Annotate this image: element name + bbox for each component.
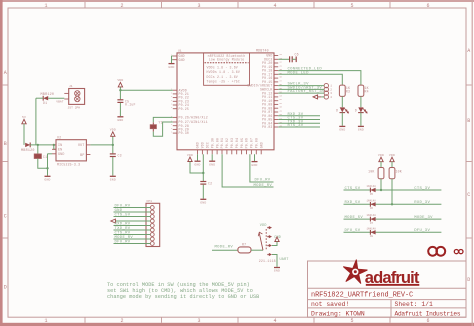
svg-text:C3: C3	[118, 154, 122, 158]
power VDD arrow OUT	[110, 128, 116, 145]
ground LED	[339, 126, 345, 131]
node MODE_RV label SW1	[215, 246, 234, 250]
wire net CTS_5V FP1	[114, 216, 151, 218]
node DFU_RV label	[255, 179, 271, 183]
connector J1 JST 2PH	[64, 85, 84, 109]
node TXD_RV label	[115, 227, 131, 231]
svg-text:MODE_LED: MODE_LED	[288, 71, 310, 75]
wire net RXD_5V/RXD_3V	[344, 203, 442, 205]
logo adafruit star	[344, 260, 368, 283]
svg-text:GND: GND	[358, 128, 364, 132]
svg-text:RTS_3V: RTS_3V	[288, 124, 304, 128]
switch SW1	[258, 224, 288, 263]
svg-text:nRF51822_UARTfriend_REV-C: nRF51822_UARTfriend_REV-C	[311, 292, 413, 300]
wire net MODE_RV FP1	[114, 238, 151, 240]
svg-text:Temps -25 - +75C: Temps -25 - +75C	[207, 80, 241, 84]
svg-text:CTS_RV: CTS_RV	[115, 232, 131, 236]
LED D3	[336, 107, 348, 113]
ground DEC2 cap	[292, 57, 296, 63]
capacitor C6 DEC2	[290, 53, 299, 63]
resistor R3 1K	[339, 85, 350, 96]
wire net FACTORY_RST_3V	[278, 92, 324, 94]
wire net RTS_3V	[278, 126, 320, 128]
svg-text:2: 2	[120, 318, 123, 324]
node CTS_RV label	[115, 232, 131, 236]
wire net TXD_RV FP1	[114, 229, 151, 231]
svg-text:JST 2PH: JST 2PH	[68, 107, 81, 110]
svg-text:RXD_3V: RXD_3V	[414, 201, 430, 205]
wire net SWCLK_3V	[278, 85, 324, 87]
wire net RXD_RV FP1	[114, 225, 151, 227]
node SWCLK_3V label	[288, 83, 310, 87]
svg-text:P0.04: P0.04	[235, 138, 239, 148]
svg-text:BP: BP	[80, 153, 84, 157]
svg-text:HVDDs 1.8 - 3.6V: HVDDs 1.8 - 3.6V	[207, 70, 241, 74]
svg-text:P0.25: P0.25	[179, 107, 189, 111]
svg-text:GND: GND	[194, 162, 200, 166]
svg-text:D5: D5	[370, 193, 374, 196]
svg-text:GND: GND	[200, 201, 206, 205]
ground AVDD cap	[117, 103, 123, 122]
svg-text:Sheet: 1/1: Sheet: 1/1	[395, 301, 434, 308]
svg-text:VDD: VDD	[201, 142, 205, 148]
wire AVDD	[120, 89, 172, 91]
svg-text:VDD: VDD	[187, 153, 193, 157]
svg-text:MODE_RV: MODE_RV	[215, 246, 234, 250]
wire R5 to CTS line	[380, 179, 382, 191]
node DFU_3V label	[414, 229, 430, 233]
node gnd rail junction	[46, 167, 48, 169]
svg-text:C: C	[467, 192, 470, 198]
wire R7 to SW1	[251, 249, 263, 251]
svg-text:D: D	[355, 109, 357, 113]
svg-text:P0.26/AIN0/XL2: P0.26/AIN0/XL2	[179, 116, 208, 120]
frame column numbers	[44, 3, 429, 324]
svg-text:1N4148: 1N4148	[367, 199, 377, 202]
svg-text:GND: GND	[44, 178, 50, 182]
svg-text:VDD: VDD	[378, 153, 384, 157]
power VDD arrow R5	[378, 153, 384, 168]
svg-text:GND: GND	[196, 142, 200, 148]
svg-text:VDD: VDD	[117, 78, 123, 82]
svg-text:DFU_5V: DFU_5V	[345, 229, 361, 233]
title block frame	[308, 261, 467, 317]
svg-text:VDD: VDD	[110, 128, 116, 132]
svg-text:P0.00: P0.00	[215, 138, 219, 148]
svg-text:GND: GND	[168, 65, 174, 69]
svg-text:3: 3	[197, 318, 200, 324]
svg-text:D: D	[4, 285, 7, 291]
svg-text:R4: R4	[365, 89, 369, 93]
capacitor C5	[117, 90, 135, 106]
svg-text:GND: GND	[115, 209, 123, 213]
svg-text:TXD_RV: TXD_RV	[115, 227, 131, 231]
note text block	[107, 282, 259, 300]
wire XL1	[153, 122, 173, 136]
power VDD arrow AVDD	[117, 78, 123, 90]
wire XL2	[153, 117, 173, 122]
svg-text:GND: GND	[179, 58, 185, 62]
svg-text:DFU_RV: DFU_RV	[255, 179, 271, 183]
svg-text:221-1118: 221-1118	[259, 259, 276, 263]
frame row letters	[4, 48, 471, 291]
module U1 bottom pins	[196, 138, 264, 154]
svg-text:VDD: VDD	[260, 224, 267, 228]
svg-text:2: 2	[330, 89, 332, 92]
node SWDIO/nRST_3V label	[288, 86, 323, 91]
wire net SWDIO/nRST_3V	[278, 88, 324, 90]
svg-text:P0.05: P0.05	[240, 138, 244, 148]
module U1 MDBT40 nRF51822 box	[177, 49, 274, 150]
svg-text:GND: GND	[209, 162, 215, 166]
capacitor C3	[110, 145, 122, 158]
svg-text:CTS_5V: CTS_5V	[345, 187, 361, 191]
svg-text:GND: GND	[251, 163, 257, 167]
svg-text:P0.30: P0.30	[179, 131, 189, 135]
svg-text:1: 1	[330, 85, 332, 88]
svg-text:RXD_5V: RXD_5V	[345, 201, 361, 205]
diode D5 zener	[367, 185, 377, 196]
ground C2	[200, 185, 206, 205]
wire reg GND	[48, 154, 53, 169]
svg-text:1N4148: 1N4148	[367, 214, 377, 217]
node CTS_5V label	[115, 214, 131, 218]
ground regulator	[44, 168, 50, 181]
fiducial pair large	[428, 247, 445, 256]
svg-text:FP1: FP1	[147, 200, 153, 203]
svg-text:5: 5	[350, 3, 353, 9]
wire net MODE_RV stub	[222, 154, 273, 187]
svg-text:D7: D7	[370, 222, 374, 225]
svg-text:U2: U2	[57, 136, 61, 140]
module U1 right pins	[247, 53, 282, 129]
svg-text:GND: GND	[110, 178, 116, 182]
node CTS_3V label	[288, 117, 304, 121]
svg-text:5V: 5V	[22, 115, 26, 119]
svg-text:Drawing: KTOWN: Drawing: KTOWN	[311, 310, 365, 317]
node DFU_5V label	[345, 229, 361, 233]
svg-text:MDBT40: MDBT40	[256, 49, 269, 53]
node RXD_5V label	[345, 201, 361, 205]
wire EN tie	[53, 144, 56, 150]
svg-text:J1: J1	[69, 85, 73, 88]
resistor R5 10K	[368, 168, 384, 179]
svg-text:C: C	[4, 214, 7, 220]
regulator U2 MIC5225-3.3	[52, 136, 90, 167]
wire net TXD_3V	[278, 122, 320, 124]
node CTS_3V label	[414, 187, 430, 191]
svg-text:P0.02: P0.02	[225, 138, 229, 148]
node VDD junction	[202, 172, 204, 174]
svg-text:P0.03: P0.03	[230, 138, 234, 148]
svg-text:10K: 10K	[396, 170, 402, 174]
node RXD_3V label	[414, 201, 430, 205]
diode D2 MBR120	[21, 143, 35, 153]
power arrow header pin4	[313, 95, 324, 99]
svg-text:Low Energy Module: Low Energy Module	[209, 58, 245, 62]
svg-text:Y1: Y1	[159, 121, 163, 125]
wire VBAT	[36, 97, 64, 99]
node DFU_RV label	[115, 241, 131, 245]
node MODE_LED label	[288, 71, 310, 75]
svg-text:P0.03: P0.03	[262, 125, 272, 129]
module U1 spec box	[204, 53, 250, 85]
wire GND pins tie	[172, 56, 173, 63]
svg-text:GND: GND	[339, 128, 345, 132]
node RTS_3V label	[288, 124, 304, 128]
svg-text:C2: C2	[208, 182, 212, 186]
svg-text:not saved!: not saved!	[311, 301, 349, 308]
svg-text:D8: D8	[370, 235, 374, 238]
ground bottom pin4	[209, 154, 215, 166]
svg-text:Adafruit Industries: Adafruit Industries	[395, 310, 461, 317]
svg-text:GND: GND	[259, 142, 263, 148]
svg-text:6: 6	[426, 318, 429, 324]
svg-text:D: D	[467, 277, 470, 283]
svg-text:P0.01: P0.01	[220, 138, 224, 148]
LED D4	[355, 107, 367, 113]
capacitor C2	[200, 173, 212, 186]
svg-text:IN: IN	[58, 143, 62, 147]
svg-text:C6: C6	[295, 53, 299, 57]
ground C3	[110, 157, 116, 182]
svg-text:MIC5225-3.3: MIC5225-3.3	[57, 162, 80, 166]
wire VDD to pin	[202, 154, 204, 173]
node VBAT label	[56, 100, 63, 103]
ground module left	[168, 64, 174, 69]
svg-text:MODE_RV: MODE_RV	[254, 184, 273, 188]
svg-text:3: 3	[330, 92, 332, 95]
svg-text:0.1uF: 0.1uF	[125, 102, 136, 106]
svg-text:DCCs 2.1 - 3.6V: DCCs 2.1 - 3.6V	[207, 75, 238, 79]
diode D8 zener	[367, 227, 377, 238]
svg-text:DFU_RV: DFU_RV	[115, 205, 131, 209]
node MODE_5V label	[345, 216, 364, 220]
wire C1 to gnd rail	[38, 159, 48, 169]
wire DEC2	[278, 58, 289, 60]
power VDD arrow bottom	[187, 153, 203, 173]
svg-text:GND: GND	[58, 152, 65, 156]
svg-text:DFU_RV: DFU_RV	[115, 241, 131, 245]
svg-text:GND: GND	[117, 118, 123, 122]
capacitor C1 tantalum	[34, 145, 47, 159]
connector SWD header circles	[324, 83, 332, 99]
svg-text:P0.08: P0.08	[255, 138, 259, 148]
svg-text:VDD: VDD	[389, 153, 395, 157]
wire net GND FP1	[114, 211, 151, 213]
svg-text:D: D	[336, 109, 338, 113]
svg-text:VDDs 1.8 - 3.6V: VDDs 1.8 - 3.6V	[207, 65, 238, 69]
svg-text:GND: GND	[274, 269, 280, 273]
svg-text:6: 6	[426, 3, 429, 9]
svg-text:4: 4	[273, 3, 276, 9]
diode D1 MBR120	[41, 93, 55, 105]
crystal Y1 32.768kHz	[150, 121, 163, 132]
svg-text:1N4148: 1N4148	[367, 227, 377, 230]
node OUT junction	[112, 144, 114, 146]
svg-text:VBAT: VBAT	[56, 100, 63, 103]
diode D7 zener	[367, 214, 377, 225]
svg-text:FACTORY_RST_3V: FACTORY_RST_3V	[288, 90, 326, 94]
ground LED	[358, 126, 364, 131]
title text company	[395, 310, 461, 317]
connector FP1	[146, 200, 160, 246]
wire net CONNECTED_LED	[278, 71, 361, 86]
wire OUT	[90, 144, 112, 146]
wire net MODE_LED	[278, 74, 342, 85]
wire net CTS_3V	[278, 119, 320, 121]
svg-text:EN: EN	[58, 148, 62, 152]
wire net DFU_5V/DFU_3V	[344, 231, 442, 233]
wire resistor to LED	[360, 96, 362, 107]
node GND label	[115, 209, 123, 213]
wire MODE_RV to R7	[212, 249, 238, 251]
svg-text:B: B	[467, 118, 470, 124]
svg-text:10K: 10K	[368, 170, 374, 174]
svg-text:2: 2	[120, 3, 123, 9]
svg-text:5: 5	[350, 318, 353, 324]
wire resistor to LED	[341, 96, 343, 107]
svg-text:CTS_5V: CTS_5V	[115, 214, 131, 218]
svg-text:1N4148: 1N4148	[367, 185, 377, 188]
ground SW1	[272, 255, 280, 273]
power arrow FP1 pin4	[111, 219, 151, 223]
node MODE_RV label	[254, 184, 273, 188]
fiducial pair small	[454, 250, 463, 254]
power VDD arrow SW1	[272, 237, 279, 246]
wire net CTS_5V/CTS_3V	[344, 189, 442, 191]
svg-text:R3: R3	[346, 89, 350, 93]
ground bottom pin1	[194, 154, 200, 166]
logo adafruit text	[365, 268, 420, 287]
wire net DFU_RV FP1	[114, 243, 151, 245]
svg-text:R7: R7	[242, 243, 246, 247]
resistor R4 1K	[358, 85, 369, 96]
title text sheet	[395, 301, 434, 308]
svg-text:3: 3	[197, 3, 200, 9]
svg-text:4: 4	[273, 318, 276, 324]
wire net CTS_RV FP1	[114, 234, 151, 236]
svg-text:A: A	[4, 70, 7, 76]
svg-text:RXD_RV: RXD_RV	[115, 223, 131, 227]
svg-text:P0.07: P0.07	[250, 138, 254, 148]
svg-text:DFU_3V: DFU_3V	[414, 229, 430, 233]
module U1 left pins	[171, 54, 208, 136]
node TXD_3V label	[288, 120, 304, 124]
node MODE_RV label	[115, 236, 134, 240]
node CONNECTED_LED label	[288, 68, 323, 72]
svg-text:MODE_RV: MODE_RV	[115, 236, 134, 240]
svg-text:1: 1	[44, 3, 47, 9]
svg-text:A: A	[467, 48, 470, 54]
svg-text:D1: D1	[43, 101, 47, 105]
svg-text:U1: U1	[178, 50, 182, 53]
svg-text:B: B	[4, 141, 7, 147]
svg-text:DCC: DCC	[206, 142, 210, 148]
title text name	[311, 292, 413, 300]
node RXD_3V label	[288, 113, 304, 117]
title text saved	[311, 301, 349, 308]
power VDD arrow R6	[389, 153, 395, 168]
svg-text:MBR120: MBR120	[21, 149, 35, 153]
resistor R6 10K	[389, 168, 402, 179]
wire D2 to IN	[30, 144, 52, 146]
svg-text:C1: C1	[43, 155, 47, 159]
wire net MODE_5V/MODE_3V	[344, 218, 442, 220]
node DFU_RV label	[115, 205, 131, 209]
svg-text:CTS_3V: CTS_3V	[414, 187, 430, 191]
power 5V arrow	[22, 115, 26, 145]
svg-text:1: 1	[44, 318, 47, 324]
resistor R7	[238, 243, 251, 253]
diode D6 zener	[367, 199, 377, 210]
node AVDD junction	[119, 89, 121, 91]
wire net DFU_RV stub	[250, 154, 274, 182]
svg-text:P0.30: P0.30	[210, 138, 214, 148]
node IN junction	[37, 144, 39, 146]
node FACTORY_RST_3V label	[288, 90, 326, 94]
wire net RXD_3V	[278, 115, 320, 117]
node CTS_5V label	[345, 187, 361, 191]
svg-text:change mode by sending it dire: change mode by sending it directly to GN…	[107, 294, 259, 300]
svg-text:OUT: OUT	[78, 143, 85, 147]
ground bottom right pin	[251, 154, 257, 167]
svg-text:UART: UART	[280, 258, 289, 262]
node RXD_RV label	[115, 223, 131, 227]
svg-text:D6: D6	[370, 207, 374, 210]
wire LED to gnd	[341, 113, 343, 126]
wire VBAT down	[35, 98, 37, 145]
svg-text:MODE_5V: MODE_5V	[345, 216, 364, 220]
node MODE_3V label	[414, 216, 433, 220]
wire LED to gnd	[360, 113, 362, 126]
wire net DFU_RV FP1	[114, 207, 151, 209]
wire R6 to RXD line	[391, 179, 393, 206]
title text drawing	[311, 310, 365, 317]
wire IN	[52, 144, 56, 146]
svg-text:P0.06: P0.06	[245, 138, 249, 148]
svg-text:MODE_3V: MODE_3V	[414, 216, 433, 220]
svg-text:4: 4	[330, 96, 332, 99]
